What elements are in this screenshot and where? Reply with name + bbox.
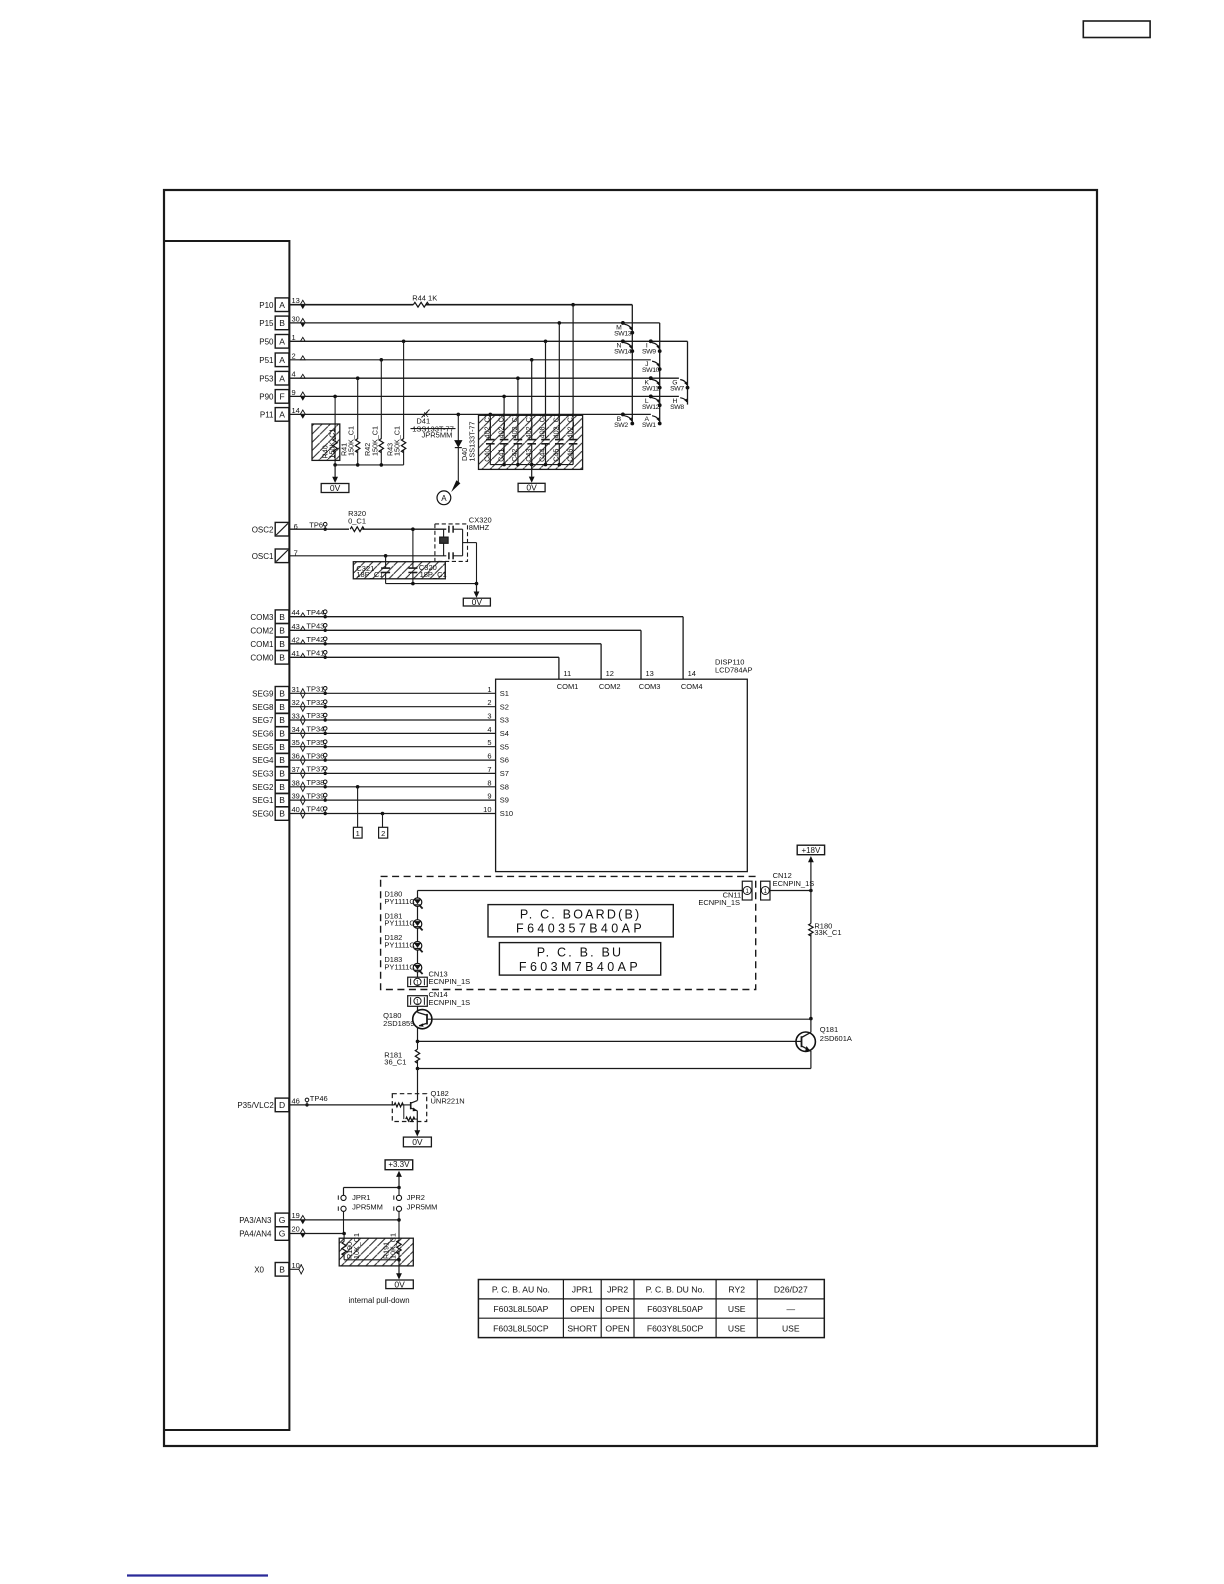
svg-text:B: B [279,755,285,765]
svg-text:SW13: SW13 [614,330,632,337]
svg-text:JPR5MM: JPR5MM [407,1203,438,1212]
label box P.C. BOARD(B) F640357B40AP [488,905,673,937]
svg-text:SEG8: SEG8 [252,703,274,712]
svg-text:0V: 0V [330,483,341,493]
test point TP46 [305,1103,308,1106]
svg-text:TP31: TP31 [306,685,324,694]
wire SEG3 row [289,772,495,774]
svg-text:S5: S5 [500,742,509,751]
resistor R40 150K_C1 [334,396,336,439]
svg-text:0V: 0V [526,483,537,493]
wire oscillator ground bus [386,583,477,585]
svg-text:2: 2 [487,698,491,707]
svg-text:JPR5MM: JPR5MM [352,1203,383,1212]
svg-text:S9: S9 [500,796,509,805]
resistor R191 10K_C1 [397,1240,401,1254]
svg-text:P15: P15 [259,319,274,328]
wire Q180 emitter node to Q181 base [416,1040,420,1044]
svg-text:150K_C1: 150K_C1 [393,426,402,456]
svg-text:OPEN: OPEN [570,1304,594,1314]
svg-text:RY2: RY2 [728,1285,745,1295]
svg-text:32: 32 [292,698,300,707]
svg-text:X0: X0 [254,1265,264,1274]
svg-text:USE: USE [728,1323,746,1333]
switch SW13 [621,321,625,325]
capacitor C43 402_C1 [531,360,533,440]
resistor R44 1K [413,302,429,307]
svg-text:9: 9 [487,792,491,801]
wire P10 row [289,304,413,306]
svg-text:SEG7: SEG7 [252,716,274,725]
svg-text:TP44: TP44 [306,608,324,617]
svg-text:P90: P90 [259,393,274,402]
svg-text:TP38: TP38 [306,778,324,787]
svg-text:1SS133T-77: 1SS133T-77 [468,422,477,462]
svg-text:35: 35 [292,738,300,747]
wire switch column 2 [659,323,661,424]
svg-text:SEG1: SEG1 [252,796,274,805]
svg-text:B: B [279,769,285,779]
svg-text:D: D [279,1100,285,1110]
svg-text:8: 8 [487,778,491,787]
connector CN13 ECNPIN_1S [408,977,428,986]
svg-text:+3.3V: +3.3V [388,1160,410,1169]
resistor R41 150K_C1 [357,378,359,439]
svg-text:4: 4 [292,370,296,379]
svg-text:2SD601A: 2SD601A [820,1034,852,1043]
resistor R181 36_C1 [417,1041,419,1049]
transistor Q180 2SD1859 [413,1010,432,1029]
svg-text:+18V: +18V [801,846,821,855]
svg-text:ECNPIN_1S: ECNPIN_1S [429,998,471,1007]
capacitor C40 402_C1 [489,414,491,439]
svg-text:39: 39 [292,792,300,801]
svg-text:OSC2: OSC2 [252,525,274,534]
test point TP37 [324,772,327,775]
svg-text:44: 44 [292,608,300,617]
svg-text:S1: S1 [500,689,509,698]
svg-text:P10: P10 [259,301,274,310]
ground 0V Q182 [416,1129,418,1131]
svg-text:34: 34 [292,725,300,734]
svg-text:19: 19 [292,1211,300,1220]
svg-text:S4: S4 [500,729,509,738]
svg-text:OSC1: OSC1 [252,552,274,561]
svg-text:B: B [279,625,285,635]
svg-text:P. C. BOARD(B): P. C. BOARD(B) [520,908,642,922]
wire SEG7 row [289,719,495,721]
switch SW14 [621,339,625,343]
wire D183 to CN13 [417,972,419,977]
svg-text:B: B [279,795,285,805]
svg-text:0_C1: 0_C1 [348,516,366,525]
svg-text:37: 37 [292,765,300,774]
svg-text:TP37: TP37 [306,765,324,774]
svg-text:C44: C44 [538,449,547,462]
svg-text:402_C1: 402_C1 [565,413,574,438]
svg-text:150K_C1: 150K_C1 [370,426,379,456]
svg-text:PY1111C: PY1111C [384,941,415,950]
net tag 2 [379,827,388,838]
svg-text:SW14: SW14 [614,349,632,356]
svg-text:S8: S8 [500,782,509,791]
svg-text:TP41: TP41 [306,649,324,658]
svg-text:F603L8L50CP: F603L8L50CP [493,1323,549,1333]
svg-text:20: 20 [292,1225,300,1234]
resistor R43 150K_C1 [403,341,405,439]
wire P90 row [289,395,679,397]
power +18V [797,845,824,855]
jumper JPR1 JPR5MM [341,1195,346,1200]
svg-text:30: 30 [292,314,300,323]
Q182 transistor element [410,1102,412,1109]
svg-text:5: 5 [487,738,491,747]
svg-text:13: 13 [646,669,654,678]
svg-text:PY1111C: PY1111C [384,919,415,928]
svg-text:SEG9: SEG9 [252,689,274,698]
svg-text:9: 9 [292,388,296,397]
test point TP6 [324,528,327,531]
svg-text:internal pull-down: internal pull-down [349,1296,410,1305]
test point TP44 [324,615,327,618]
svg-text:S7: S7 [500,769,509,778]
svg-text:SEG4: SEG4 [252,756,274,765]
svg-text:P. C. B. BU: P. C. B. BU [537,946,624,960]
capacitor C41 402_C1 [503,396,505,439]
svg-text:3: 3 [487,712,491,721]
svg-text:43: 43 [292,622,300,631]
wire R181 bottom bus to Q181 emitter [416,1067,420,1071]
capacitor C42 402_C1 [517,378,519,439]
connector CN12 ECNPIN_1S [761,881,770,900]
test point TP38 [324,785,327,788]
switch SW8 [680,398,687,402]
wire Q180 base to +18V rail node [427,1018,811,1020]
svg-text:408_C1: 408_C1 [538,413,547,438]
svg-text:A: A [441,494,447,503]
ground 0V oscillator [476,584,478,592]
svg-text:UNR221N: UNR221N [431,1096,465,1105]
svg-text:18P_C1: 18P_C1 [356,570,383,579]
wire Q182 emitter down [416,1111,418,1129]
svg-text:C40: C40 [483,449,492,462]
wire +3.3V node [397,1186,401,1190]
svg-text:JPR1: JPR1 [352,1193,370,1202]
wire SEG1 row [289,799,495,801]
svg-text:C41: C41 [496,449,505,462]
wire COM2 row [289,629,641,631]
digital transistor Q182 UNR221N dashed outline [392,1094,426,1122]
svg-text:C46: C46 [565,449,574,462]
svg-text:14: 14 [292,406,300,415]
svg-text:A: A [279,355,285,365]
svg-text:P. C. B. AU No.: P. C. B. AU No. [492,1285,550,1295]
svg-text:TP33: TP33 [306,711,324,720]
svg-text:41: 41 [292,649,300,658]
capacitor C45 402_C1 [558,323,560,440]
wire switch column 3 [687,341,689,404]
LCD display DISP110 LCD784AP body [496,679,748,871]
svg-text:150K_C1: 150K_C1 [328,429,337,459]
svg-text:8MHZ: 8MHZ [469,523,490,532]
ground 0V capacitor bank [531,465,533,477]
resistor R190 10K_C1 [343,1234,345,1242]
test point TP34 [324,732,327,735]
svg-text:S10: S10 [500,809,513,818]
test point TP40 [324,812,327,815]
svg-text:33K_C1: 33K_C1 [814,928,841,937]
svg-text:38: 38 [292,778,300,787]
svg-text:COM1: COM1 [557,682,579,691]
wire SEG9 row [289,692,495,694]
svg-text:B: B [279,639,285,649]
svg-text:SW12: SW12 [642,404,660,411]
svg-text:SW11: SW11 [642,386,659,393]
svg-text:P35/VLC2: P35/VLC2 [237,1101,274,1110]
svg-text:1: 1 [356,829,360,838]
jumper JPR2 JPR5MM [398,1188,400,1196]
resistor R180 33K_C1 [809,924,813,937]
svg-text:402_C1: 402_C1 [524,413,533,438]
test point TP39 [324,798,327,801]
svg-text:A: A [279,373,285,383]
diode D180 PY1111C [413,898,422,907]
svg-text:0V: 0V [394,1279,405,1289]
svg-text:OPEN: OPEN [605,1304,629,1314]
test point TP33 [324,718,327,721]
hatched box around R190/R191 [339,1238,413,1266]
diode D182 PY1111C [413,942,422,951]
wire crystal to ground [463,542,477,544]
crystal CX320 plates and body [448,526,450,533]
wire capacitor bank ground bus [490,464,573,466]
wire diode chain top to CN11 [418,890,743,892]
test point TP32 [324,705,327,708]
svg-text:ECNPIN_1S: ECNPIN_1S [773,879,815,888]
hatched box around C320/C321 [353,562,445,579]
svg-text:1: 1 [292,333,296,342]
svg-text:2: 2 [381,829,385,838]
svg-text:PY1111C: PY1111C [384,897,415,906]
switch SW7 [686,386,690,390]
svg-text:C43: C43 [524,449,533,462]
svg-text:SW7: SW7 [670,386,684,393]
ground 0V pulldown [398,1260,400,1274]
svg-text:C42: C42 [510,449,519,462]
wire OSC1 row [289,555,446,557]
svg-text:36_C1: 36_C1 [384,1058,406,1067]
svg-text:A: A [279,410,285,420]
test point TP36 [324,758,327,761]
svg-text:150K_C1: 150K_C1 [347,426,356,456]
Q182 base-emitter resistor [403,1105,405,1119]
test point TP31 [324,692,327,695]
wire OSC2 row [289,528,349,530]
switch SW10 [658,367,662,371]
svg-text:402_C1: 402_C1 [483,413,492,438]
svg-text:10K_C1: 10K_C1 [352,1233,361,1259]
svg-text:4: 4 [487,725,491,734]
svg-text:PA4/AN4: PA4/AN4 [239,1230,272,1239]
svg-text:TP42: TP42 [306,635,324,644]
test point TP43 [324,629,327,632]
node A leader arrow [451,480,460,492]
svg-text:JPR2: JPR2 [607,1285,628,1295]
capacitor C320 18P_C1 [412,529,414,568]
svg-text:TP32: TP32 [306,698,324,707]
wire P50 row [289,340,687,342]
svg-text:TP43: TP43 [306,622,324,631]
ground 0V resistor bank [334,465,336,477]
Q182 base resistor [394,1103,403,1107]
test point TP41 [324,656,327,659]
wire +18V rail down [810,863,812,924]
svg-text:P53: P53 [259,374,274,383]
connector CN11 ECNPIN_1S [742,881,752,900]
svg-text:6: 6 [487,752,491,761]
svg-text:TP39: TP39 [306,791,324,800]
svg-text:11: 11 [563,669,571,678]
svg-text:10: 10 [292,1261,300,1270]
svg-text:A: A [279,336,285,346]
test point TP42 [324,642,327,645]
svg-text:B: B [279,652,285,662]
svg-text:Q181: Q181 [820,1025,838,1034]
svg-text:D26/D27: D26/D27 [774,1285,808,1295]
svg-text:PA3/AN3: PA3/AN3 [239,1216,272,1225]
svg-text:G: G [279,1229,286,1239]
svg-text:10K_C1: 10K_C1 [389,1233,398,1259]
svg-text:46: 46 [292,1096,300,1105]
wire PA3 row [289,1219,399,1221]
switch SW2 [621,413,625,417]
svg-text:R44 1K: R44 1K [412,294,437,303]
svg-text:SW10: SW10 [642,367,660,374]
svg-text:TP6: TP6 [309,520,323,529]
svg-text:B: B [279,318,285,328]
svg-text:USE: USE [782,1323,800,1333]
svg-text:2SD1859: 2SD1859 [383,1019,414,1028]
svg-text:B: B [279,688,285,698]
svg-text:B: B [279,612,285,622]
svg-text:SEG5: SEG5 [252,743,274,752]
wire SEG0 row [289,813,495,815]
svg-text:B: B [279,742,285,752]
svg-text:COM2: COM2 [599,682,621,691]
diode D181 PY1111C [413,920,422,929]
svg-text:F603M7B40AP: F603M7B40AP [519,960,641,974]
wire SEG6 row [289,732,495,734]
svg-text:SW8: SW8 [670,404,684,411]
switch SW1 [658,422,662,426]
capacitor C46 402_C1 [572,305,574,440]
capacitor C44 408_C1 [545,341,547,439]
svg-text:PY1111C: PY1111C [384,962,415,971]
svg-text:COM3: COM3 [639,682,661,691]
svg-text:P50: P50 [259,337,274,346]
svg-text:ECNPIN_1S: ECNPIN_1S [698,898,740,907]
svg-text:COM0: COM0 [250,653,274,662]
svg-text:COM4: COM4 [681,682,703,691]
wire P11 row [289,413,650,415]
wire COM0 row [289,656,559,658]
revision box top right [1083,21,1150,38]
svg-text:33: 33 [292,712,300,721]
svg-text:C45: C45 [552,449,561,462]
wire P51 row [289,359,650,361]
wire SEG8 row [289,706,495,708]
IC U1 microcontroller body [164,241,289,1430]
wire resistor bank ground bus [335,464,404,466]
configuration table [478,1280,824,1338]
wire COM1 row [289,643,601,645]
svg-text:ECNPIN_1S: ECNPIN_1S [429,977,471,986]
svg-text:JPR1: JPR1 [572,1285,593,1295]
svg-text:B: B [279,1264,285,1274]
svg-text:SW1: SW1 [642,422,656,429]
svg-text:B: B [279,809,285,819]
svg-text:SEG2: SEG2 [252,783,274,792]
svg-text:7: 7 [487,765,491,774]
svg-text:42: 42 [292,635,300,644]
test point TP35 [324,745,327,748]
svg-text:TP40: TP40 [306,805,324,814]
wire switch column 1 [631,305,633,424]
wire CN12 to +18V rail [770,890,811,892]
svg-text:F: F [279,392,284,402]
wire SEG4 row [289,759,495,761]
svg-text:LCD784AP: LCD784AP [715,665,753,674]
svg-text:SEG6: SEG6 [252,730,274,739]
svg-text:F603Y8L50AP: F603Y8L50AP [647,1304,703,1314]
wire CN14 to Q180 collector [417,1006,419,1011]
svg-text:SEG3: SEG3 [252,770,274,779]
svg-text:40: 40 [292,805,300,814]
svg-text:18P_C1: 18P_C1 [420,570,447,579]
svg-text:2: 2 [292,351,296,360]
svg-text:S6: S6 [500,756,509,765]
svg-text:TP36: TP36 [306,751,324,760]
svg-text:SW2: SW2 [614,422,628,429]
diode D40 1SS133T-77 [457,414,459,440]
svg-text:S3: S3 [500,716,509,725]
svg-text:1: 1 [487,685,491,694]
svg-text:402_C1: 402_C1 [496,413,505,438]
svg-text:0V: 0V [472,597,483,607]
svg-text:S2: S2 [500,702,509,711]
svg-text:G: G [279,1215,286,1225]
svg-text:JPR5MM: JPR5MM [422,431,453,440]
power +3.3V [385,1160,413,1170]
svg-text:P51: P51 [259,356,274,365]
page border frame [164,190,1097,1446]
svg-text:A: A [279,300,285,310]
svg-text:COM3: COM3 [250,613,274,622]
svg-text:B: B [279,702,285,712]
diode D183 PY1111C [413,963,422,972]
svg-text:SW9: SW9 [642,349,656,356]
hatched box around R40 [312,424,340,460]
svg-text:SHORT: SHORT [567,1323,598,1333]
svg-text:10: 10 [483,805,491,814]
svg-text:COM2: COM2 [250,626,274,635]
wire pulldown ground bus [344,1259,399,1261]
svg-text:B: B [279,782,285,792]
switch SW9 [649,339,653,343]
switch SW11 [649,376,653,380]
svg-text:TP35: TP35 [306,738,324,747]
svg-text:TP46: TP46 [310,1094,328,1103]
